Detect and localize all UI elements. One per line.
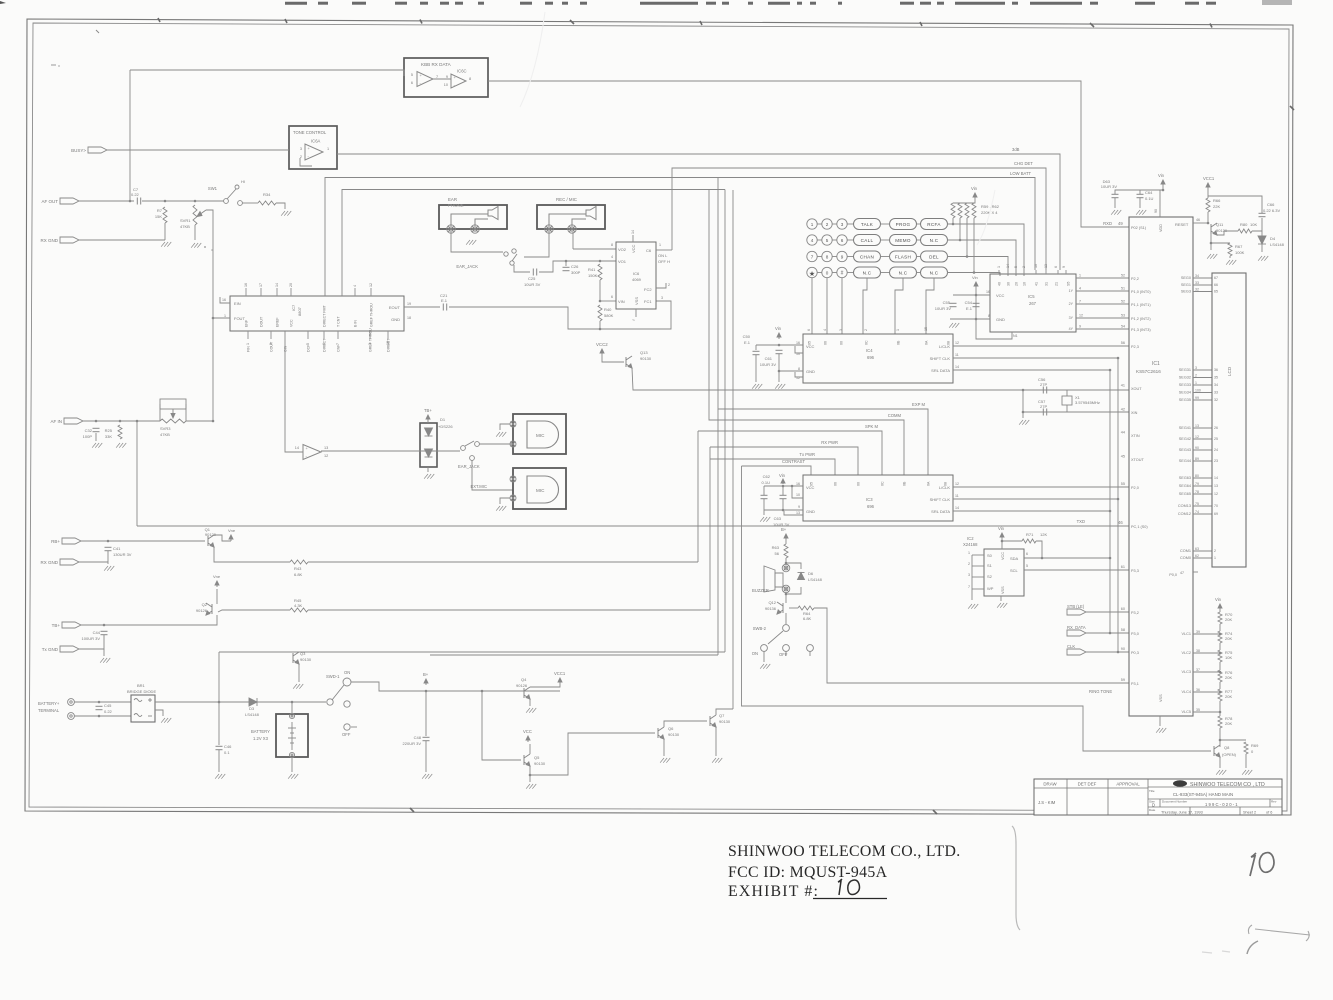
- wire VIN rail to VDD: [1160, 186, 1163, 206]
- svg-text:XTOUT: XTOUT: [1131, 458, 1144, 462]
- svg-text:66: 66: [1214, 283, 1218, 287]
- ground at C32: [92, 443, 102, 448]
- SWB-2 on stub: [763, 651, 765, 662]
- wire Q6 collector to Q7: [664, 721, 707, 727]
- ground at Q4: [526, 708, 536, 713]
- scan artifact faint dashes bottom left of curl: [1202, 951, 1230, 953]
- SVR3 resistor: [160, 419, 186, 423]
- wire IC5 gnd wire: [950, 318, 990, 320]
- svg-text:TONE CONTROL: TONE CONTROL: [293, 130, 327, 135]
- svg-text:SEG3: SEG3: [1181, 290, 1191, 294]
- wire SEG65 to LCD: [1193, 493, 1212, 495]
- wire bus EXP M: [718, 178, 928, 476]
- wire C46 to ground: [218, 750, 220, 772]
- capacitor C48: [423, 737, 430, 740]
- wire IC3 pin10 hook: [792, 487, 803, 498]
- ground at R69: [1242, 770, 1252, 775]
- svg-text:RX PWR: RX PWR: [821, 440, 838, 445]
- svg-text:12: 12: [369, 283, 373, 287]
- svg-text:8: 8: [826, 255, 829, 260]
- wire C26 stub: [565, 261, 567, 266]
- svg-text:KS57C2616: KS57C2616: [1136, 369, 1161, 374]
- svg-text:P0,0: P0,0: [1169, 573, 1177, 577]
- wire ext mic vertical: [472, 460, 513, 490]
- svg-text:OFF H: OFF H: [658, 259, 670, 264]
- ground at R7: [161, 242, 171, 247]
- wire ear jack to C25: [514, 265, 530, 272]
- svg-text:59: 59: [1121, 678, 1125, 682]
- wire between op-amps: [433, 78, 451, 80]
- wire IC1 VSS stub: [1159, 716, 1161, 726]
- svg-text:13: 13: [1195, 424, 1199, 428]
- VIN arrow at IC4: [777, 333, 781, 339]
- ground at Q5: [526, 784, 536, 789]
- svg-text:0B: 0B: [903, 481, 907, 486]
- svg-text:14: 14: [275, 283, 279, 287]
- svg-text:IC1: IC1: [1152, 361, 1160, 367]
- svg-text:18: 18: [386, 341, 390, 345]
- svg-text:C54: C54: [965, 300, 973, 305]
- scan artifact patch top right: [1262, 0, 1292, 5]
- svg-text:P3,3: P3,3: [1131, 569, 1139, 573]
- wire R69 ground: [1245, 754, 1247, 768]
- wire FOUT to bus: [213, 317, 230, 319]
- keypad oval RCFA row 1: [921, 219, 948, 230]
- transistor Q2: [206, 603, 212, 615]
- wire ladder segment above R78: [1219, 701, 1221, 716]
- svg-text:VCC: VCC: [523, 729, 532, 734]
- keypad circle 5: [822, 235, 832, 245]
- svg-text:4: 4: [1079, 287, 1081, 291]
- wire bus Tx PWR: [710, 459, 835, 475]
- svg-text:SEG44: SEG44: [1179, 459, 1191, 463]
- ground at IC1 VSS: [1156, 728, 1166, 733]
- handwritten exhibit number 10: [838, 879, 860, 895]
- svg-text:25: 25: [1214, 437, 1218, 441]
- ground at R25: [116, 443, 126, 448]
- wire IC2 pin 2: [972, 565, 984, 567]
- wire VLC1: [1193, 633, 1220, 635]
- ground at R67: [1226, 260, 1236, 265]
- svg-text:CLK: CLK: [1067, 644, 1075, 649]
- EAR jack switch contacts: [504, 252, 508, 256]
- VIN arrow top: [1161, 180, 1165, 186]
- svg-text:14: 14: [955, 365, 959, 369]
- svg-text:VDD: VDD: [1159, 224, 1163, 232]
- svg-text:EXHIBIT #:: EXHIBIT #:: [728, 883, 819, 900]
- wire battery top: [291, 702, 293, 713]
- svg-text:32: 32: [1214, 398, 1218, 402]
- svg-text:4: 4: [823, 329, 827, 331]
- connector RB+: [51, 538, 81, 544]
- svg-text:P1,3 (INT3): P1,3 (INT3): [1131, 328, 1151, 332]
- wire D6 branch: [786, 563, 801, 569]
- svg-text:C50: C50: [743, 334, 751, 339]
- svg-text:6: 6: [322, 343, 326, 345]
- wire VO2 line: [573, 248, 616, 250]
- svg-text:1: 1: [224, 314, 226, 318]
- svg-text:SEG43: SEG43: [1179, 448, 1191, 452]
- svg-text:C44: C44: [93, 630, 101, 635]
- wire D1 bottom to ground: [427, 467, 429, 472]
- ground at C48: [422, 774, 432, 779]
- MIC2 connector lower: [510, 495, 516, 501]
- wire bus x741 to Q8 base: [742, 466, 1212, 751]
- svg-text:6: 6: [841, 238, 844, 243]
- svg-text:RX_DATA: RX_DATA: [1067, 625, 1086, 630]
- TONE CONTROL box: [289, 126, 337, 169]
- svg-text:Vne: Vne: [228, 528, 236, 533]
- wire VLC3: [1193, 671, 1220, 673]
- svg-text:VCC: VCC: [631, 244, 636, 253]
- svg-text:R59 . R62: R59 . R62: [981, 204, 1000, 209]
- IC U4 696 box: [803, 334, 953, 383]
- wire tone control output 3dB: [337, 154, 1060, 270]
- wire IC4 pin12 hook: [795, 372, 803, 377]
- capacitor C26: [563, 267, 570, 270]
- svg-text:IC4: IC4: [866, 348, 873, 353]
- svg-text:37: 37: [1196, 668, 1200, 672]
- SWB-2 third stub: [809, 651, 811, 656]
- svg-text:DEL: DEL: [929, 255, 939, 260]
- svg-text:1: 1: [811, 222, 814, 227]
- wire R41 bottom to VIN line: [599, 280, 601, 301]
- svg-text:N.C: N.C: [863, 271, 872, 276]
- svg-text:~: ~: [632, 318, 635, 324]
- keypad oval N.C row 2: [921, 235, 948, 246]
- wire Q7 collector to bus: [716, 709, 733, 715]
- svg-text:GND: GND: [806, 509, 815, 514]
- svg-text:S1: S1: [987, 563, 993, 568]
- resistor R78 20K: [1218, 716, 1222, 728]
- VIN arrow at IC5: [974, 282, 978, 288]
- svg-text:J.S - KIM: J.S - KIM: [1038, 800, 1056, 805]
- svg-text:1: 1: [896, 329, 900, 331]
- svg-text:LCD: LCD: [1227, 366, 1232, 376]
- VCC1 arrow top: [1206, 183, 1210, 189]
- transistor Q6: [658, 727, 664, 739]
- ground at Q8: [1216, 770, 1226, 775]
- wire SEG33 to LCD: [1193, 384, 1212, 386]
- VIN arrow keypad: [973, 193, 977, 199]
- wire C21 to IC6 loop: [449, 301, 671, 329]
- svg-text:LS4148: LS4148: [245, 712, 260, 717]
- ground at MIC1: [496, 432, 506, 437]
- svg-text:Vin: Vin: [779, 473, 786, 478]
- MIC1 connector upper: [510, 421, 516, 427]
- keypad column wire x812: [811, 278, 813, 334]
- svg-text:21: 21: [1055, 282, 1059, 286]
- svg-text:6: 6: [1054, 266, 1058, 268]
- svg-text:90130: 90130: [668, 732, 680, 737]
- SWD-1 lever: [332, 685, 344, 700]
- capacitor C46: [216, 746, 223, 749]
- svg-text:0.22 6.3V: 0.22 6.3V: [1263, 208, 1280, 213]
- svg-text:IC2: IC2: [967, 536, 974, 541]
- svg-text:C45: C45: [104, 703, 112, 708]
- resistor R69: [1244, 742, 1248, 754]
- resistor R34: [258, 201, 276, 205]
- keypad row 4 wires e: [916, 272, 920, 274]
- wire battery bottom to ground: [291, 758, 293, 772]
- wire buzzer bottom: [785, 592, 787, 603]
- wire Q8 emitter ground: [1219, 757, 1221, 768]
- wire R62 to row: [973, 218, 975, 273]
- svg-text:D3: D3: [249, 706, 255, 711]
- wire SEG64 to LCD: [1193, 485, 1212, 487]
- SWD-1 OFF stub: [351, 726, 357, 728]
- battery connector top: [289, 713, 294, 718]
- svg-text:TERMINAL: TERMINAL: [38, 708, 60, 713]
- svg-text:VIN: VIN: [618, 299, 625, 304]
- wire IC3 LCLK to IC1: [953, 486, 1129, 488]
- svg-text:R34: R34: [263, 192, 271, 197]
- resistor R77 20K: [1218, 689, 1222, 701]
- wire IC4 gnd left: [779, 370, 803, 372]
- svg-text:34: 34: [1214, 383, 1218, 387]
- wire R66 to Q11: [1207, 212, 1209, 223]
- svg-text:Q3: Q3: [300, 651, 306, 656]
- KBB RX DATA box: [404, 58, 488, 97]
- IC7 bottom pin stubs: [248, 331, 388, 339]
- battery terminal circle 2: [68, 713, 75, 720]
- wire ladder segment above R74: [1219, 624, 1221, 631]
- svg-text:P1,0 (INT0): P1,0 (INT0): [1131, 290, 1151, 294]
- svg-text:ON L: ON L: [658, 253, 668, 258]
- MIC2 body: [527, 476, 559, 503]
- connector AF IN: [50, 418, 83, 424]
- keypad circle 9: [837, 251, 847, 261]
- keypad column wire x827: [826, 278, 828, 334]
- svg-text:P2,2: P2,2: [1131, 277, 1139, 281]
- svg-text:D6: D6: [808, 571, 814, 576]
- svg-text:90130: 90130: [640, 356, 652, 361]
- svg-text:R67: R67: [1235, 244, 1243, 249]
- SWB-2 third contact: [807, 645, 814, 652]
- svg-text:3: 3: [661, 296, 663, 300]
- battery terminal circle 1: [68, 699, 75, 706]
- svg-text:5: 5: [1026, 564, 1028, 568]
- svg-text:12: 12: [1195, 435, 1199, 439]
- wire B+ cap branch: [425, 691, 427, 736]
- op-amp IC6A: [305, 144, 323, 160]
- svg-text:Q2: Q2: [202, 602, 208, 607]
- resistor R64: [798, 606, 814, 610]
- svg-text:E.1: E.1: [744, 340, 751, 345]
- svg-text:C66: C66: [1267, 202, 1275, 207]
- B+ arrow: [424, 679, 428, 685]
- svg-text:X24168: X24168: [963, 542, 978, 547]
- svg-text:Vin: Vin: [971, 186, 978, 191]
- svg-text:DOUT: DOUT: [260, 316, 264, 327]
- keypad circle 2: [822, 219, 832, 229]
- svg-text:20K: 20K: [1225, 617, 1232, 622]
- op-amp IC6B triangle: [417, 72, 433, 87]
- svg-text:56: 56: [1121, 341, 1125, 345]
- connector AF OUT: [42, 198, 80, 204]
- svg-text:PHONE: PHONE: [448, 203, 464, 208]
- wire SEG43 to LCD: [1193, 449, 1212, 451]
- svg-text:44: 44: [1121, 431, 1125, 435]
- wire C41 bottom: [107, 551, 109, 564]
- ground at D4: [1258, 256, 1268, 261]
- svg-text:5: 5: [306, 343, 310, 345]
- wire RESET to Q11: [1193, 222, 1208, 224]
- svg-text:100UR 3V: 100UR 3V: [82, 636, 101, 641]
- TB+ arrow: [426, 415, 430, 421]
- keypad row 4 wires c: [847, 272, 853, 274]
- IC U2 X24168 box: [984, 549, 1024, 596]
- svg-text:40: 40: [998, 282, 1002, 286]
- ground at C41: [104, 566, 114, 571]
- Vne arrow at Q1: [229, 535, 233, 541]
- svg-text:Vne: Vne: [213, 574, 221, 579]
- switch SW1: [224, 199, 229, 204]
- resistor R7: [163, 207, 167, 223]
- wire TB+: [81, 615, 217, 625]
- SVR1 wiper arrow: [197, 210, 206, 217]
- wire VDD stub: [1159, 206, 1161, 217]
- svg-text:16: 16: [796, 482, 800, 486]
- SWD-1 mid contact: [344, 701, 350, 707]
- svg-text:P02 (S1): P02 (S1): [1131, 226, 1147, 230]
- svg-text:VSS: VSS: [634, 297, 639, 305]
- keypad row 1 wires: [817, 223, 822, 225]
- switch SWD-1: [327, 699, 333, 705]
- svg-text:99: 99: [1195, 396, 1199, 400]
- svg-text:696: 696: [867, 355, 875, 360]
- svg-text:Q6: Q6: [668, 726, 674, 731]
- svg-text:3: 3: [1195, 366, 1197, 370]
- title block logo ellipse: [1173, 780, 1187, 786]
- wire VIN line: [600, 300, 616, 302]
- svg-text:FC2: FC2: [644, 287, 652, 292]
- svg-text:REC / MIC: REC / MIC: [556, 197, 577, 202]
- wire R64 to ring tone: [814, 608, 1129, 683]
- svg-text:C46: C46: [224, 744, 232, 749]
- wire XIN line: [1023, 411, 1129, 413]
- svg-text:N.C: N.C: [930, 238, 939, 243]
- svg-text:17: 17: [259, 283, 263, 287]
- svg-text:SPK M: SPK M: [865, 424, 879, 429]
- svg-text:63: 63: [1195, 547, 1199, 551]
- wire Q1 emitter to R43 line: [214, 547, 290, 562]
- resistor R41: [598, 264, 602, 280]
- svg-text:90120: 90120: [205, 532, 217, 537]
- svg-text:12: 12: [1214, 492, 1218, 496]
- resistor R74 20K: [1218, 631, 1222, 643]
- keypad row 4 wires d: [880, 272, 889, 274]
- diode D6 LS4148: [798, 573, 805, 580]
- svg-text:EREF: EREF: [276, 317, 280, 327]
- wire P0,0 stub: [1193, 571, 1198, 573]
- wire ladder segment above R76: [1219, 662, 1221, 670]
- svg-text:1.2V X3: 1.2V X3: [253, 736, 269, 741]
- svg-text:R66: R66: [1213, 198, 1221, 203]
- svg-text:P2,3: P2,3: [1131, 345, 1139, 349]
- svg-text:15K: 15K: [155, 214, 162, 219]
- svg-text:1: 1: [246, 343, 250, 345]
- wire SEG35 to LCD: [1193, 399, 1212, 401]
- svg-text:13: 13: [1044, 264, 1048, 268]
- svg-text:100K: 100K: [1235, 250, 1245, 255]
- wire IC5 output y278: [1076, 277, 1129, 279]
- capacitor C32: [93, 428, 100, 431]
- IC U5 267 box: [990, 274, 1076, 332]
- scan artifact arrow line bottom right: [1248, 925, 1310, 941]
- svg-text:SDA: SDA: [1010, 556, 1019, 561]
- svg-text:Q5: Q5: [534, 755, 540, 760]
- svg-text:Thursday, June 17, 1993: Thursday, June 17, 1993: [1161, 811, 1203, 815]
- svg-text:4069: 4069: [632, 277, 642, 282]
- wire IC4 vcc left: [756, 344, 803, 346]
- wire C50 top leg: [755, 345, 757, 350]
- svg-text:BATTERY+: BATTERY+: [38, 701, 60, 706]
- wire C50 ground: [755, 355, 757, 382]
- svg-text:90126: 90126: [196, 608, 208, 613]
- svg-text:2: 2: [968, 562, 970, 566]
- svg-text:20K: 20K: [1225, 636, 1232, 641]
- keypad row4 wire to IC5: [947, 273, 1000, 277]
- svg-text:Sheet 2: Sheet 2: [1243, 811, 1256, 815]
- wire IC4 pin10 hook: [795, 346, 803, 353]
- svg-text:IC6C: IC6C: [457, 69, 467, 74]
- wire SCL: [1024, 569, 1129, 571]
- svg-text:P3,2: P3,2: [1131, 611, 1139, 615]
- capacitor C54: [973, 303, 980, 306]
- svg-text:SEG1: SEG1: [1181, 283, 1191, 287]
- resistor R63: [784, 544, 788, 558]
- diode D1 lower element: [425, 449, 433, 457]
- svg-text:VCC1: VCC1: [1203, 176, 1215, 181]
- svg-text:CHG DET: CHG DET: [1014, 161, 1033, 166]
- svg-text:41: 41: [1035, 282, 1039, 286]
- wire AF IN: [83, 420, 160, 422]
- svg-text:RCFA: RCFA: [927, 222, 941, 227]
- svg-text:20: 20: [1015, 282, 1019, 286]
- wire R45 to bus: [308, 609, 710, 611]
- svg-text:22K: 22K: [1213, 204, 1220, 209]
- IC U1 KS57C2616 box: [1129, 217, 1193, 716]
- wire COM0 to LCD: [1193, 557, 1212, 559]
- capacitor C21: [443, 304, 446, 311]
- wire C62 vertical top: [763, 486, 765, 495]
- svg-text:XIN: XIN: [1131, 411, 1138, 415]
- capacitor C63 top: [1112, 194, 1119, 197]
- wire Q12 base R64: [789, 607, 798, 609]
- svg-text:0.22: 0.22: [131, 192, 140, 197]
- wire C62 ground leg: [763, 510, 765, 515]
- svg-text:42: 42: [1121, 408, 1125, 412]
- svg-text:54: 54: [1121, 325, 1125, 329]
- svg-text:47KB: 47KB: [160, 432, 170, 437]
- wire C7 to SW1: [142, 200, 224, 202]
- wire SEG0 to LCD: [1193, 277, 1212, 279]
- keypad circle 3: [837, 219, 847, 229]
- svg-text:IC6: IC6: [633, 271, 640, 276]
- connector RX GND 2: [40, 559, 79, 565]
- REC/MIC connector right: [568, 225, 576, 233]
- svg-text:49: 49: [1118, 221, 1123, 226]
- buzzer terminal lower: [782, 585, 790, 593]
- wire IC5 output y304: [1076, 303, 1129, 305]
- EAR PHONE connector right: [471, 225, 479, 233]
- svg-text:R71: R71: [1026, 532, 1034, 537]
- resistor R59 220K: [951, 203, 955, 218]
- wire IC6 VCC stub: [632, 235, 634, 242]
- svg-text:T CNT: T CNT: [337, 316, 341, 327]
- wire STB to P3,2: [1086, 611, 1129, 613]
